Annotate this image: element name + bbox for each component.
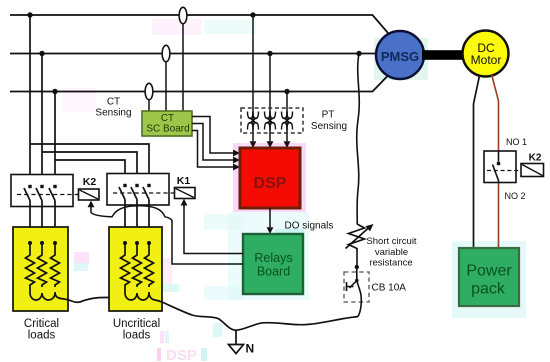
critical loads bottom bus [30, 287, 73, 302]
jpeg artifact tints (decorative) [62, 19, 526, 362]
uncritical loads bottom bus [125, 287, 162, 302]
left contactor pole 1 [24, 185, 32, 201]
left contactor box [11, 175, 73, 207]
shaft coupling [422, 50, 463, 60]
svg-text:Sensing: Sensing [311, 121, 347, 132]
Relays Board U3 [243, 234, 303, 294]
CT ellipse on L3 [145, 83, 153, 99]
wire: phase2 branch to right contactor [42, 152, 137, 186]
svg-text:Power: Power [466, 263, 512, 280]
relay coil K1 [175, 175, 196, 199]
node: L2 tap for short-circuit branch [356, 51, 361, 56]
wire: phase3 branch to right contactor [55, 160, 125, 186]
PT transformer symbol 1 [248, 112, 259, 130]
PT transformer symbol 3 [282, 112, 293, 130]
node: L2 tap for PT [267, 51, 272, 56]
right contactor pole 2 [131, 184, 139, 200]
label: CT Sensing [95, 97, 131, 119]
svg-text:PT: PT [322, 110, 335, 121]
wire: DC motor armature black to power pack [474, 76, 480, 249]
wire: CT board out 3 to DSP [192, 131, 234, 168]
ground N [229, 330, 255, 356]
svg-text:pack: pack [471, 281, 506, 298]
node: L1 tap for PT [250, 12, 255, 17]
wire: right contactor outputs to uncritical loads [124, 200, 126, 244]
wire: resistor to CB [356, 251, 358, 267]
circuit breaker CB 10A [344, 267, 369, 317]
wire: K2 coil arrow from relays board [88, 201, 243, 265]
svg-text:variable: variable [375, 247, 408, 258]
node: L1 tap for contactors [27, 12, 32, 17]
CT ellipse on L1 [179, 7, 187, 23]
wire: CT board out 2 to DSP [192, 124, 234, 161]
svg-text:loads: loads [28, 330, 56, 342]
svg-text:Board: Board [257, 265, 290, 279]
wire: left contactor outputs to critical loads [29, 201, 31, 244]
wire: phase3 drop to left contactor [54, 92, 56, 187]
resistor load R4 [121, 243, 130, 287]
resistor load R6 [145, 243, 154, 287]
svg-text:CT: CT [107, 97, 120, 108]
wire: CT2 to CT SC board [165, 62, 167, 111]
svg-text:SC Board: SC Board [146, 124, 189, 135]
right contactor mechanical dashed link [113, 192, 175, 194]
svg-text:DSP: DSP [166, 347, 197, 362]
node above CB [355, 265, 359, 269]
left contactor pole 3 [49, 185, 57, 201]
svg-text:K2: K2 [83, 176, 97, 188]
label: PT Sensing [311, 110, 347, 133]
wire: K1 coil arrow from relays board [181, 199, 243, 254]
right contactor pole 3 [143, 184, 151, 200]
node dots in uncritical loads [123, 241, 127, 245]
svg-text:PMSG: PMSG [381, 49, 419, 64]
wire: PT tap 1 down to DSP [252, 15, 254, 141]
CT SC Board U2 [142, 111, 192, 136]
svg-text:NO 2: NO 2 [505, 191, 526, 201]
node: L3 tap for contactors [52, 89, 57, 94]
wire: short-circuit branch from L2 (wiggly) [357, 54, 360, 225]
wire: neutral from uncritical loads to CB, wavy [162, 302, 358, 330]
svg-text:K2: K2 [529, 153, 542, 164]
DC Motor M1 [463, 31, 509, 77]
svg-text:NO 1: NO 1 [506, 137, 527, 147]
node: L3 tap for PT [284, 89, 289, 94]
left contactor pole 2 [36, 185, 44, 201]
relay coil K2 (right) [521, 153, 544, 177]
resistor load R2 [38, 243, 47, 287]
NO contact switch (K2 contact) [484, 151, 521, 183]
bus line L2 (phase 2) [10, 53, 377, 55]
uncritical loads box [109, 227, 162, 311]
svg-text:N: N [246, 342, 255, 356]
wire: red lower to power pack [498, 183, 500, 249]
wire: DC motor field red upper [492, 74, 499, 151]
wire: phase1 branch to right contactor [30, 144, 149, 186]
wire: PT tap 2 down to DSP [269, 54, 271, 142]
PT transformer symbol 2 [265, 112, 276, 130]
left contactor mechanical dashed link [17, 194, 79, 196]
svg-text:CT: CT [161, 113, 174, 124]
wire: CT1 to CT SC board [182, 24, 184, 111]
critical loads box [13, 227, 68, 311]
svg-text:K1: K1 [177, 175, 191, 187]
resistor load R3 [51, 243, 60, 287]
svg-text:loads: loads [123, 330, 151, 342]
wire: DO signals DSP to Relays Board [269, 208, 271, 227]
node dots in critical loads [28, 241, 32, 245]
generator PMSG [376, 31, 424, 79]
svg-text:resistance: resistance [369, 258, 412, 269]
wire: neutral between load boxes [73, 298, 109, 303]
svg-text:CB 10A: CB 10A [372, 283, 407, 294]
wire: CT board out 1 to DSP [192, 117, 234, 154]
Power pack PS1 [459, 248, 519, 306]
right contactor box [107, 174, 169, 206]
svg-text:Motor: Motor [471, 53, 502, 67]
svg-text:Sensing: Sensing [95, 108, 131, 119]
wire: phase1 drop to left contactor [29, 15, 31, 186]
wire: PT tap 3 down to DSP [286, 92, 288, 142]
svg-text:Critical: Critical [24, 318, 59, 330]
label: Uncritical loads [113, 318, 160, 342]
resistor load R1 [26, 243, 35, 287]
wire: phase2 drop to left contactor [41, 54, 43, 187]
CT ellipse on L2 [162, 45, 170, 61]
svg-text:DSP: DSP [254, 175, 287, 192]
resistor load R5 [133, 243, 142, 287]
DSP U1 [240, 148, 300, 208]
svg-text:Short circuit: Short circuit [366, 236, 417, 247]
label: Short circuit variable resistance [366, 236, 417, 269]
right contactor pole 1 [119, 184, 127, 200]
svg-text:Relays: Relays [254, 251, 292, 265]
PT sensing dashed box [241, 108, 303, 133]
label: Critical loads [24, 318, 59, 342]
relay coil K2 [79, 176, 100, 200]
svg-text:Uncritical: Uncritical [113, 318, 160, 330]
variable resistor (short circuit) [346, 224, 374, 251]
wire: CT3 to CT SC board [148, 100, 150, 111]
svg-text:DO signals: DO signals [285, 221, 334, 232]
node: L2 tap for contactors [39, 51, 44, 56]
bus line L3 (phase 3) [10, 76, 388, 92]
bus line L1 (phase 1) [10, 15, 388, 33]
